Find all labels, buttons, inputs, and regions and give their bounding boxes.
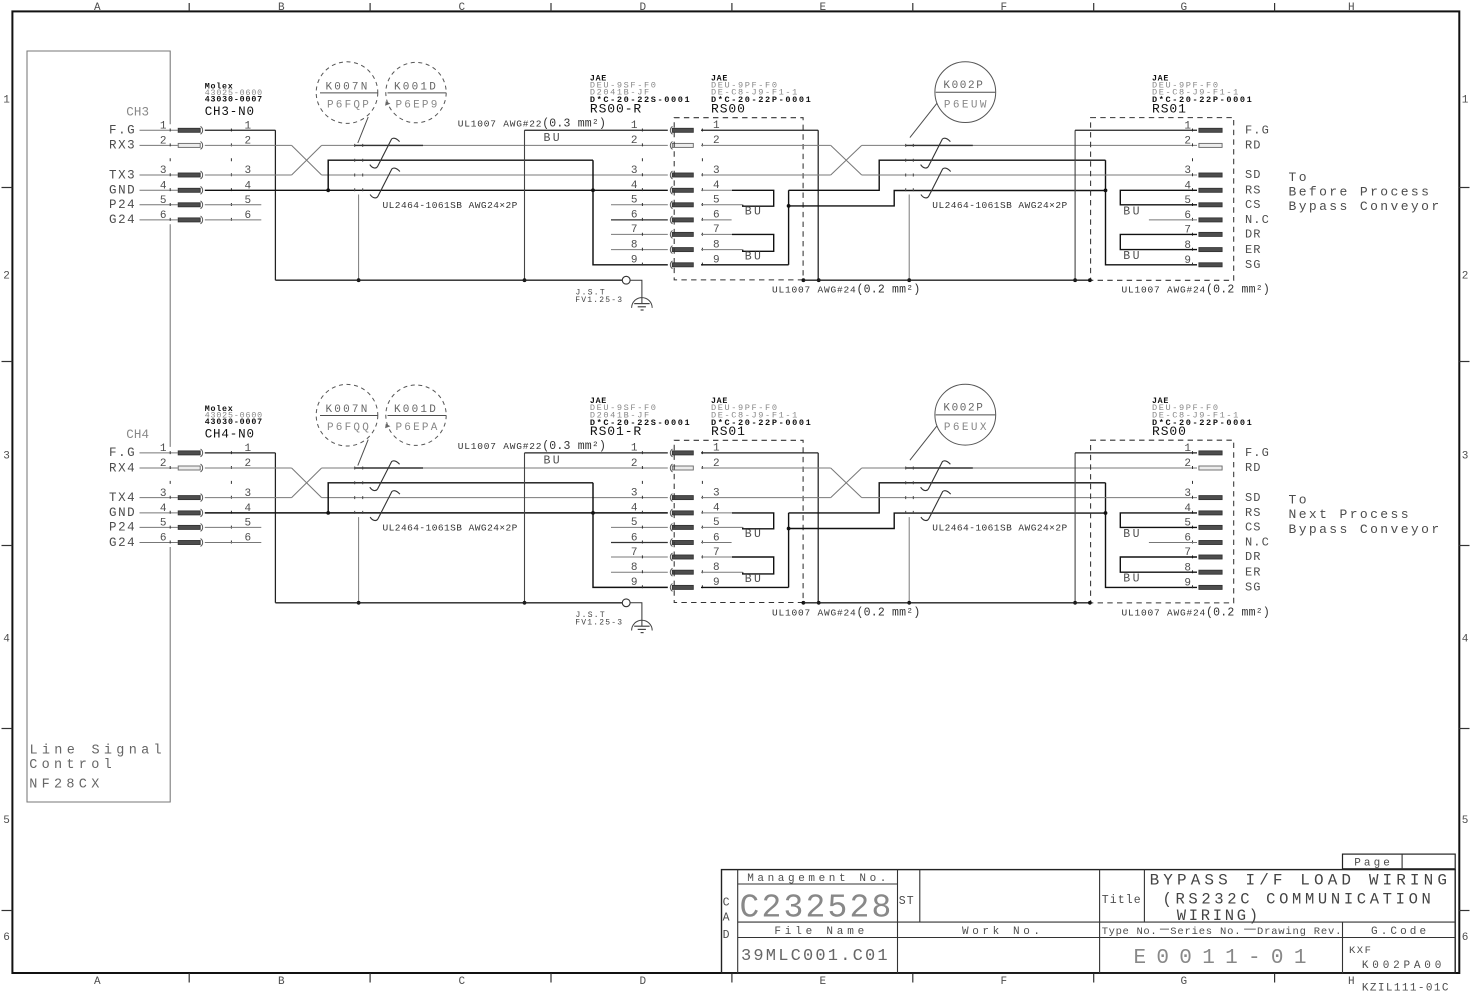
RS01 pin 4 contact bbox=[1199, 188, 1222, 192]
grid row ticks bbox=[2, 188, 1470, 911]
RS00 jumper pin7-pin8 bbox=[732, 234, 774, 251]
svg-text:G: G bbox=[1181, 976, 1188, 988]
management number bbox=[740, 890, 894, 927]
CAD column bbox=[723, 897, 730, 943]
RS01 pin 1 number bbox=[713, 443, 720, 455]
svg-text:RX3: RX3 bbox=[109, 139, 136, 153]
svg-text:2: 2 bbox=[1184, 458, 1191, 470]
CH4-N0 pin 5 number bbox=[160, 518, 251, 530]
RS00 pin 8 number bbox=[1184, 562, 1191, 574]
svg-text:Before Process: Before Process bbox=[1289, 185, 1432, 200]
RS01 pin9 wire up bbox=[701, 513, 790, 588]
RS01 jumper pin4-pin5 bbox=[732, 513, 774, 529]
RS00 pin 6 contact bbox=[1199, 541, 1222, 545]
cable2 twist pair2 bbox=[921, 491, 951, 521]
svg-text:CS: CS bbox=[1245, 198, 1262, 212]
wire A (pair return upper) bbox=[789, 160, 1106, 190]
wire F.G to ground bus bbox=[205, 453, 276, 603]
ground tap bbox=[630, 603, 642, 626]
svg-text:C: C bbox=[459, 976, 466, 988]
connector CH3-N0 part labels bbox=[205, 81, 263, 119]
svg-text:FV1.25-3: FV1.25-3 bbox=[575, 619, 623, 628]
svg-text:3: 3 bbox=[1462, 451, 1469, 463]
svg-text:BU: BU bbox=[745, 250, 764, 263]
RS00 pin 8 contact bbox=[1199, 570, 1222, 574]
RS00 dashed outline bbox=[674, 118, 803, 280]
CH4-N0 pin 4 number bbox=[160, 503, 252, 515]
ground bus right bbox=[803, 601, 1091, 605]
reference circle K001D P6EP9 bbox=[386, 62, 446, 122]
RS01-R pin 6 number bbox=[631, 532, 638, 544]
svg-text:UL2464-1061SB AWG24×2P: UL2464-1061SB AWG24×2P bbox=[932, 523, 1067, 534]
line signal control label bbox=[29, 743, 166, 792]
drawing title bbox=[1150, 872, 1451, 925]
RS01-R pin 7 stub bbox=[611, 556, 668, 558]
svg-text:6: 6 bbox=[3, 932, 10, 944]
svg-text:K007N: K007N bbox=[326, 404, 370, 416]
RS00 pin 2 number bbox=[1184, 458, 1191, 470]
svg-text:RS01-R: RS01-R bbox=[590, 424, 642, 439]
svg-text:3: 3 bbox=[1184, 488, 1191, 500]
svg-text:1: 1 bbox=[1184, 121, 1191, 133]
cable1 label bbox=[383, 200, 518, 211]
svg-text:KZIL111-01C: KZIL111-01C bbox=[1362, 983, 1450, 993]
wire G24 stub bbox=[205, 542, 261, 544]
RS00 pin 5 contact bbox=[1199, 525, 1222, 529]
label BU far jumper1 bbox=[1123, 206, 1142, 219]
wire F.G to ground bus bbox=[205, 130, 276, 280]
RS01 pin 7 number bbox=[1184, 225, 1191, 237]
svg-text:Bypass Conveyor: Bypass Conveyor bbox=[1289, 522, 1442, 537]
RS00 pin6 stub bbox=[701, 219, 732, 221]
svg-text:P6EPA: P6EPA bbox=[396, 422, 440, 434]
RS01-R F.G wire drop bbox=[523, 453, 668, 605]
wire to far pin2 bbox=[862, 467, 1197, 469]
RS01 pin 6 number bbox=[713, 532, 720, 544]
wire TX row bbox=[205, 497, 292, 499]
svg-text:N.C: N.C bbox=[1245, 536, 1270, 550]
svg-text:UL1007 AWG#24(0.2 mm²): UL1007 AWG#24(0.2 mm²) bbox=[772, 284, 920, 297]
svg-text:DR: DR bbox=[1245, 550, 1262, 564]
crossover X2 bbox=[831, 468, 862, 498]
svg-text:C232528: C232528 bbox=[740, 890, 894, 927]
RS01-R pin 1 number bbox=[631, 443, 638, 455]
svg-text:UL1007 AWG#22(0.3 mm²): UL1007 AWG#22(0.3 mm²) bbox=[458, 440, 606, 453]
RS01-R pin 3 number bbox=[631, 487, 638, 499]
RS00 pin 3 number bbox=[713, 165, 720, 177]
svg-text:K002PA00: K002PA00 bbox=[1362, 960, 1445, 972]
cable1 twist pair2 bbox=[370, 491, 400, 521]
svg-text:D: D bbox=[723, 929, 730, 942]
RS00-R pin 8 stub bbox=[611, 249, 668, 251]
cable1 twist pair1 bbox=[370, 461, 400, 491]
RS00-R pin 7 contact bbox=[670, 231, 693, 239]
svg-text:D: D bbox=[640, 976, 647, 988]
svg-text:KXF: KXF bbox=[1349, 945, 1372, 957]
RS01 pin3 wire bbox=[701, 497, 831, 499]
label BU jumper2 bbox=[745, 573, 764, 586]
svg-text:ER: ER bbox=[1245, 565, 1262, 579]
RS00-R pin 6 stub bbox=[611, 219, 668, 221]
RS01 pin1 wire bbox=[1073, 130, 1197, 282]
RS00-R pin 8 number bbox=[631, 239, 638, 251]
svg-text:RS01: RS01 bbox=[711, 424, 746, 439]
wire to RS pin3 bbox=[322, 497, 668, 499]
svg-text:BU: BU bbox=[1123, 573, 1142, 586]
label BU jumper2 bbox=[745, 250, 764, 263]
connector RS01 part labels bbox=[1152, 75, 1253, 117]
RS00 pin 8 signal ER bbox=[1245, 565, 1262, 579]
svg-text:1: 1 bbox=[160, 443, 167, 455]
RS00-R pin 5 number bbox=[631, 195, 638, 207]
RS01 pin2 wire bbox=[701, 467, 831, 469]
svg-text:BU: BU bbox=[745, 573, 764, 586]
RS00 pin2 wire bbox=[701, 144, 831, 146]
svg-text:3: 3 bbox=[160, 488, 167, 500]
RS01 pin 9 signal SG bbox=[1245, 258, 1262, 272]
RS01-R pin 7 contact bbox=[670, 553, 693, 561]
RS01 pin 4 number bbox=[1184, 181, 1191, 193]
svg-text:G: G bbox=[1181, 2, 1188, 14]
svg-text:9: 9 bbox=[631, 255, 638, 267]
cable2 drain wire bbox=[907, 517, 911, 605]
arrow from K001D bbox=[385, 101, 390, 106]
RS01-R pin 5 stub bbox=[611, 526, 668, 528]
grid column ticks bbox=[189, 3, 1274, 983]
crossover X1 bbox=[292, 145, 322, 175]
title block outline bbox=[722, 870, 1456, 974]
svg-text:CH4: CH4 bbox=[126, 428, 149, 442]
svg-text:2: 2 bbox=[1462, 271, 1469, 283]
connector CH4-N0 part labels bbox=[205, 404, 263, 442]
connector RS01-R part labels bbox=[590, 397, 691, 439]
CH3-N0 pin 1 contact bbox=[178, 126, 202, 134]
RS00-R pin 7 stub bbox=[611, 233, 668, 235]
RS00-R pin 6 number bbox=[631, 210, 638, 222]
svg-text:TX4: TX4 bbox=[109, 491, 136, 505]
CH3-N0 pin 1 number bbox=[160, 121, 252, 133]
wire B (pair return lower) bbox=[789, 513, 1106, 528]
wire pair1 bold segment cable2 bbox=[906, 144, 973, 146]
RS01 pin 2 contact bbox=[1199, 143, 1222, 147]
svg-text:RS: RS bbox=[1245, 506, 1262, 520]
RS00 pin 7 signal DR bbox=[1245, 550, 1262, 564]
CH3-N0 pin 4 contact bbox=[178, 186, 202, 194]
CH4-N0 pin 1 label F.G bbox=[109, 446, 178, 460]
RS01 pin6 stub bbox=[701, 542, 732, 544]
svg-text:UL2464-1061SB AWG24×2P: UL2464-1061SB AWG24×2P bbox=[383, 200, 518, 211]
wire TX row bbox=[205, 174, 292, 176]
RS01 pin 9 contact bbox=[1199, 263, 1222, 267]
svg-text:6: 6 bbox=[1462, 932, 1469, 944]
RS01 pin7 wire bbox=[701, 556, 732, 558]
RS00 pin 9 number bbox=[1184, 578, 1191, 590]
svg-text:K007N: K007N bbox=[326, 81, 370, 93]
RS00 pin 6 number bbox=[1184, 533, 1191, 545]
CH4-N0 pin 4 label GND bbox=[109, 506, 178, 520]
svg-text:G24: G24 bbox=[109, 213, 136, 227]
RS00 pin 5 number bbox=[713, 195, 720, 207]
CH4-N0 pin 3 number bbox=[160, 488, 251, 500]
svg-text:G24: G24 bbox=[109, 536, 136, 550]
RS00-R pin 9 contact bbox=[670, 261, 693, 269]
svg-text:K001D: K001D bbox=[394, 81, 438, 93]
CH4-N0 pin 4 contact bbox=[178, 509, 202, 517]
svg-text:B: B bbox=[278, 2, 285, 14]
svg-text:BYPASS I/F LOAD WIRING: BYPASS I/F LOAD WIRING bbox=[1150, 872, 1451, 890]
RS00-R pin 1 contact bbox=[670, 126, 693, 134]
label BU jumper1 bbox=[745, 205, 764, 218]
RS01 pin 8 contact bbox=[1199, 248, 1222, 252]
RS00 pin6 stub bbox=[1149, 542, 1197, 544]
cable1 twist pair1 bbox=[370, 138, 400, 168]
svg-text:BU: BU bbox=[745, 528, 764, 541]
RS01 pin 6 signal N.C bbox=[1245, 213, 1270, 227]
svg-text:9: 9 bbox=[1184, 578, 1191, 590]
svg-text:D: D bbox=[640, 2, 647, 14]
cable2 label bbox=[932, 200, 1067, 211]
RS00 pin 9 signal SG bbox=[1245, 581, 1262, 595]
svg-text:6: 6 bbox=[160, 210, 167, 222]
svg-text:43030-0007: 43030-0007 bbox=[205, 418, 263, 427]
svg-text:9: 9 bbox=[1184, 255, 1191, 267]
RS01 pin 3 number bbox=[1184, 165, 1191, 177]
CH3-N0 pin 2 contact bbox=[178, 142, 202, 150]
RS00 pin 6 signal N.C bbox=[1245, 536, 1270, 550]
svg-text:F.G: F.G bbox=[1245, 124, 1270, 138]
svg-text:39MLC001.C01: 39MLC001.C01 bbox=[741, 947, 890, 966]
RS00-R pin 8 contact bbox=[670, 246, 693, 254]
reference circle K002P P6EUW bbox=[935, 62, 996, 123]
svg-text:RD: RD bbox=[1245, 139, 1262, 153]
svg-text:3: 3 bbox=[160, 165, 167, 177]
svg-text:6: 6 bbox=[160, 533, 167, 545]
svg-text:UL1007 AWG#22(0.3 mm²): UL1007 AWG#22(0.3 mm²) bbox=[458, 118, 606, 131]
RS00 pin 7 number bbox=[1184, 547, 1191, 559]
RS00-R pin 3 contact bbox=[670, 171, 693, 179]
RS00 pin 7 number bbox=[713, 224, 720, 236]
svg-text:N.C: N.C bbox=[1245, 213, 1270, 227]
CH4-N0 pin 5 label P24 bbox=[109, 521, 178, 535]
svg-text:P24: P24 bbox=[109, 198, 136, 212]
CH3-N0 pin 5 contact bbox=[178, 201, 202, 209]
RS01 pin 2 number bbox=[713, 458, 720, 470]
svg-text:TX3: TX3 bbox=[109, 168, 136, 182]
page box bbox=[1343, 854, 1456, 869]
RS00-R pin 2 contact bbox=[670, 142, 693, 150]
label BU far jumper2 bbox=[1123, 573, 1142, 586]
wire G24 stub bbox=[205, 219, 261, 221]
RS00 pin 6 number bbox=[713, 210, 720, 222]
svg-text:3: 3 bbox=[1184, 165, 1191, 177]
RS00 pin 1 number bbox=[1184, 443, 1191, 455]
wire RX row bbox=[205, 144, 292, 146]
cable2 label bbox=[932, 523, 1067, 534]
wire GND bbox=[205, 512, 668, 514]
cable1 twist pair2 bbox=[370, 168, 400, 198]
svg-text:UL2464-1061SB AWG24×2P: UL2464-1061SB AWG24×2P bbox=[383, 523, 518, 534]
svg-text:SG: SG bbox=[1245, 581, 1262, 595]
svg-text:To: To bbox=[1289, 170, 1309, 185]
RS01 jumper pin7-pin8 bbox=[732, 557, 774, 574]
svg-text:GND: GND bbox=[109, 506, 136, 520]
svg-text:A: A bbox=[94, 2, 101, 14]
svg-text:1: 1 bbox=[631, 443, 638, 455]
CH4-N0 pin 1 contact bbox=[178, 449, 202, 457]
CH4-N0 boundary dashes bbox=[170, 447, 231, 546]
RS00 jumper pin4-pin5 bbox=[1120, 513, 1197, 528]
svg-text:3: 3 bbox=[3, 451, 10, 463]
RS00 boundary dashes bbox=[1192, 447, 1194, 591]
CH4-N0 pin 3 label TX4 bbox=[109, 491, 178, 505]
connector RS01 part labels bbox=[711, 397, 812, 439]
svg-text:1: 1 bbox=[3, 95, 10, 107]
svg-text:Line Signal: Line Signal bbox=[30, 743, 166, 758]
sheet code bbox=[1362, 983, 1450, 993]
RS00 pin7 wire bbox=[701, 233, 732, 235]
svg-text:SD: SD bbox=[1245, 168, 1262, 182]
RS01 pin 8 number bbox=[1184, 240, 1191, 252]
svg-text:K002P: K002P bbox=[943, 80, 984, 92]
ground bus left bbox=[275, 279, 622, 281]
cable1 drain wire bbox=[357, 517, 361, 605]
svg-text:A: A bbox=[723, 912, 730, 925]
svg-text:1: 1 bbox=[160, 121, 167, 133]
RS00 jumper pin7-pin8 bbox=[1120, 557, 1197, 572]
RS00-R pin 3 number bbox=[631, 165, 638, 177]
svg-text:To: To bbox=[1289, 493, 1309, 508]
RS01 jumper pin7-pin8 bbox=[1120, 234, 1197, 249]
RS00 pin 1 signal F.G bbox=[1245, 446, 1270, 460]
cable2 boundary dashes bbox=[906, 467, 914, 518]
crossover X2 bbox=[831, 145, 862, 175]
svg-text:CH3-N0: CH3-N0 bbox=[205, 105, 255, 119]
svg-text:F.G: F.G bbox=[1245, 446, 1270, 460]
CH4-N0 pin 6 label G24 bbox=[109, 536, 178, 550]
RS00-R pin 5 stub bbox=[611, 204, 668, 206]
reference circle K001D P6EPA bbox=[386, 385, 446, 445]
svg-text:3: 3 bbox=[631, 487, 638, 499]
svg-text:5: 5 bbox=[160, 195, 167, 207]
svg-text:BU: BU bbox=[1123, 206, 1142, 219]
cable1 label bbox=[383, 523, 518, 534]
RS00 pin 4 signal RS bbox=[1245, 506, 1262, 520]
RS01-R pin 1 contact bbox=[670, 449, 693, 457]
svg-text:File Name: File Name bbox=[774, 926, 868, 938]
svg-text:ER: ER bbox=[1245, 243, 1262, 257]
RS01 pin 1 signal F.G bbox=[1245, 124, 1270, 138]
svg-text:DR: DR bbox=[1245, 228, 1262, 242]
svg-text:2: 2 bbox=[631, 135, 638, 147]
RS01-R pin 9 contact bbox=[670, 584, 693, 592]
svg-text:F: F bbox=[1001, 2, 1008, 14]
svg-text:P6EP9: P6EP9 bbox=[396, 99, 440, 111]
svg-text:2: 2 bbox=[631, 458, 638, 470]
svg-text:RX4: RX4 bbox=[109, 461, 136, 475]
RS00-R pin 4 contact bbox=[670, 186, 693, 194]
RS01 pin 1 contact bbox=[1199, 128, 1222, 132]
svg-text:F.G: F.G bbox=[109, 446, 136, 460]
wire GND pair loop bbox=[326, 483, 667, 588]
CH3-N0 pin 1 label F.G bbox=[109, 124, 178, 138]
svg-text:2: 2 bbox=[160, 458, 167, 470]
wire pair1 bold segment bbox=[355, 144, 423, 146]
svg-text:H: H bbox=[1348, 976, 1355, 988]
work no header bbox=[962, 926, 1044, 938]
CH3-N0 pin 3 label TX3 bbox=[109, 168, 178, 182]
CH3-N0 pin 2 number bbox=[160, 136, 251, 148]
RS00 pin 9 number bbox=[713, 255, 720, 267]
ring terminal bbox=[622, 599, 630, 607]
CH3-N0 pin 5 number bbox=[160, 195, 251, 207]
RS00-R pin 9 number bbox=[631, 255, 638, 267]
RS00 pin 3 signal SD bbox=[1245, 491, 1262, 505]
wire SG drop to far connector bbox=[1104, 160, 1197, 265]
type series drawing header bbox=[1102, 926, 1343, 938]
leader from K002P bbox=[910, 103, 937, 137]
wire to RS pin3 bbox=[322, 174, 668, 176]
RS01 dashed outline bbox=[1091, 118, 1234, 281]
ground symbol bbox=[632, 620, 653, 632]
RS01-R pin 8 contact bbox=[670, 568, 693, 576]
RS01 pin 7 contact bbox=[1199, 232, 1222, 236]
svg-text:Management No.: Management No. bbox=[747, 873, 890, 885]
svg-text:1: 1 bbox=[631, 120, 638, 132]
file name header bbox=[774, 926, 868, 938]
RS00 boundary dashes bbox=[701, 125, 703, 269]
leader from K007N bbox=[358, 117, 368, 143]
CH4-N0 pin 6 contact bbox=[178, 539, 202, 547]
RS00 pin 4 number bbox=[713, 180, 720, 192]
svg-text:GND: GND bbox=[109, 184, 136, 198]
svg-text:Bypass Conveyor: Bypass Conveyor bbox=[1289, 199, 1442, 214]
leader from K007N bbox=[358, 440, 368, 466]
ground tap bbox=[630, 280, 642, 303]
RS00-R pin 1 number bbox=[631, 120, 638, 132]
CH4-N0 pin 6 number bbox=[160, 533, 251, 545]
svg-text:(RS232C COMMUNICATION: (RS232C COMMUNICATION bbox=[1163, 891, 1435, 909]
svg-text:BU: BU bbox=[544, 454, 563, 467]
RS01 pin6 stub bbox=[1149, 219, 1197, 221]
wire pair1 bold segment cable2 bbox=[906, 467, 973, 469]
RS01-R pin 3 contact bbox=[670, 494, 693, 502]
label BU pair1 bbox=[544, 454, 563, 467]
ST cell bbox=[899, 895, 915, 908]
svg-text:9: 9 bbox=[631, 577, 638, 589]
svg-text:Drawing Rev.: Drawing Rev. bbox=[1257, 926, 1342, 938]
RS00-R pin 6 contact bbox=[670, 216, 693, 224]
ground terminal label bbox=[575, 288, 623, 305]
RS01 pin1 wire to bus bbox=[701, 453, 821, 605]
svg-text:NF28CX: NF28CX bbox=[29, 777, 103, 792]
node CH3 bbox=[126, 105, 149, 119]
svg-text:E: E bbox=[820, 976, 827, 988]
RS00 pin1 wire to bus bbox=[701, 130, 821, 282]
svg-text:Series No.: Series No. bbox=[1170, 926, 1241, 938]
svg-text:RS00: RS00 bbox=[1152, 424, 1187, 439]
CH3-N0 pin 2 label RX3 bbox=[109, 139, 178, 153]
label BU jumper1 bbox=[745, 528, 764, 541]
svg-text:Page: Page bbox=[1354, 857, 1393, 869]
line signal control box bbox=[27, 51, 170, 802]
CH3-N0 pin 5 label P24 bbox=[109, 198, 178, 212]
RS01-R boundary dashes bbox=[641, 447, 643, 591]
svg-text:5: 5 bbox=[1462, 815, 1469, 827]
ground bus left bbox=[275, 602, 622, 604]
RS00 dashed outline bbox=[1091, 440, 1234, 603]
wire P24 stub bbox=[205, 204, 261, 206]
RS01 pin 9 number bbox=[713, 577, 720, 589]
